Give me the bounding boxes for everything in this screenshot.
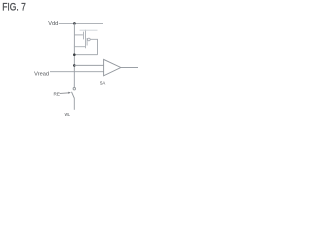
drain feedback wire (right loop) <box>90 39 97 54</box>
transistor Q1 channel bar <box>85 30 87 49</box>
switch terminal circle <box>73 88 75 90</box>
op-amp 5A triangle <box>104 59 121 75</box>
junction dot node N2 <box>73 64 76 67</box>
svg-text:5A: 5A <box>100 81 105 86</box>
loop bottom wire to sense line <box>74 54 97 56</box>
Vread wire to amp <box>50 71 104 73</box>
junction dot node N1 <box>73 53 76 56</box>
svg-text:WL: WL <box>65 112 71 118</box>
wire to WL <box>73 98 75 109</box>
svg-text:RE: RE <box>54 91 60 96</box>
gate lead wire <box>74 34 83 36</box>
svg-text:Vdd: Vdd <box>48 21 58 27</box>
svg-text:Vread: Vread <box>34 72 49 78</box>
RE arrow <box>60 92 69 95</box>
junction dot on Vdd rail <box>73 22 76 25</box>
transistor Q1 lower lead <box>74 46 85 48</box>
transistor Q1 source lead (top) <box>80 29 98 31</box>
Vdd rail wire <box>59 22 103 24</box>
wire node N2 to amp input <box>74 64 103 66</box>
amp output wire <box>121 67 138 69</box>
transistor Q1 bubble <box>88 38 91 41</box>
svg-text:FIG. 7: FIG. 7 <box>2 2 26 14</box>
transistor Q1 right gate bar <box>86 38 88 46</box>
transistor Q1 gate bar <box>83 32 85 40</box>
main vertical wire (sense line) <box>73 23 75 87</box>
switch blade <box>72 92 75 99</box>
